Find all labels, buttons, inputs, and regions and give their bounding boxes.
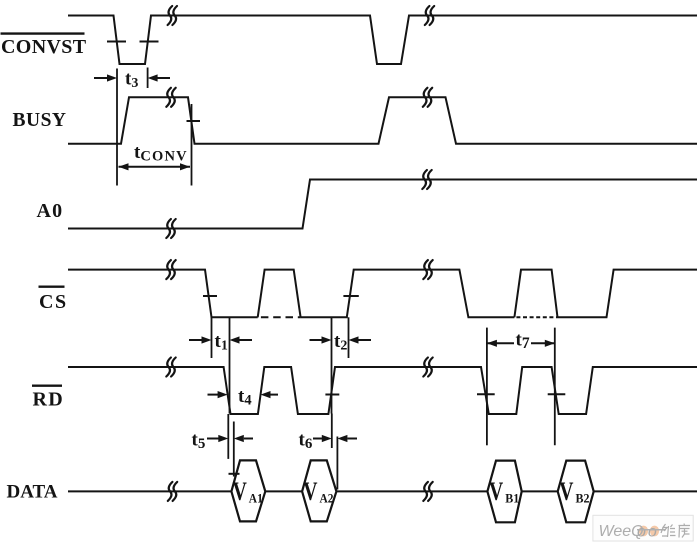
annotation tCONV [119,104,192,186]
data valid hexagon VA1 [231,460,265,521]
annotation t4 [208,386,279,409]
svg-text:V: V [233,477,247,506]
wire BUSY waveform [68,97,697,143]
svg-text:DATA: DATA [7,482,58,503]
wire DATA baseline segments [68,490,697,492]
tick on RD falling edge 3 [477,393,495,395]
wire CS optional pulse 1 [258,270,301,318]
annotation t1 [189,317,252,413]
break mark RD right [423,358,432,377]
tick on RD rising edge 2 [325,394,339,396]
svg-text:A1: A1 [249,491,263,506]
svg-text:RD: RD [33,389,65,411]
svg-text:BUSY: BUSY [13,110,67,131]
svg-text:CS: CS [39,291,68,313]
wire CONVST waveform [68,16,697,65]
break mark BUSY left [166,88,175,107]
svg-text:CONVST: CONVST [1,36,87,58]
wire A0 waveform [68,180,697,229]
break mark CS right [423,260,432,279]
break mark CS left [166,260,175,279]
wire RD waveform [68,367,697,414]
break mark DATA right [423,482,432,501]
wire CS optional pulse 2 [514,270,557,318]
svg-text:A2: A2 [320,491,334,506]
svg-text:V: V [559,477,573,506]
annotation t3 [94,68,170,186]
data valid hexagon VB1 [487,461,521,523]
svg-text:V: V [303,477,317,506]
break mark RD left [166,358,175,377]
wire CS waveform main [68,270,697,318]
svg-text:B2: B2 [576,491,590,506]
annotation t7 [487,328,555,446]
svg-text:V: V [489,477,503,506]
tick on CS rising edge 1 [343,295,358,297]
annotation t2 [310,317,372,413]
data valid hexagon VB2 [558,461,594,523]
break mark CONVST left [168,6,177,25]
annotation t6 [299,414,358,490]
signal label CONVST (active-low overline) [1,34,87,58]
wire CS dotted low under pulse 2 [514,316,557,318]
svg-text:oo: oo [637,524,659,541]
tick on RD falling edge 4 [548,393,566,395]
tick on CONVST falling edge [107,41,126,43]
signal label RD (active-low overline) [32,386,64,411]
tick on DATA hexagon VA1 left edge [229,473,240,475]
annotation t5 [192,414,254,477]
wire CS dashed low under pulse 1 [258,316,301,318]
tick on CS falling edge 1 [203,295,217,297]
tick on BUSY falling edge [187,120,201,122]
svg-text:B1: B1 [505,491,519,506]
break mark CONVST right [425,6,434,25]
break mark A0 left [166,219,175,238]
watermark WeeQoo weiku [593,515,693,541]
break mark BUSY right [423,88,432,107]
tick on CONVST rising edge [140,41,159,43]
break mark DATA left [168,482,177,501]
break mark A0 right [422,170,431,189]
signal label CS (active-low overline) [39,287,68,313]
data valid hexagon VA2 [302,460,336,521]
svg-text:A0: A0 [37,200,64,222]
